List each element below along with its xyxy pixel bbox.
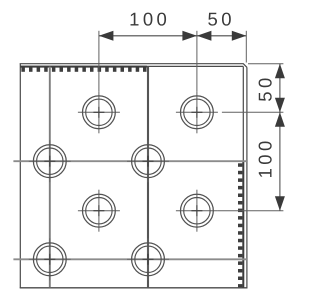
svg-text:50: 50 (208, 8, 235, 29)
arrow left at 98.9 (99, 31, 114, 41)
hole E circles (33, 145, 66, 178)
hole C crosshair (78, 190, 120, 232)
plate right edge inner line (242, 66, 244, 287)
hole G crosshair (29, 238, 71, 280)
arrow right at 246.3 (232, 31, 247, 41)
extension line y=63.7 right (248, 63, 283, 65)
hole G circles (33, 243, 66, 276)
hole E crosshair (29, 140, 71, 182)
extension line x=246.3 (245, 31, 247, 63)
serration bar top (20, 66, 147, 68)
centerline row 1 (13, 160, 247, 162)
serration bar right (242, 161, 244, 288)
hole H crosshair (127, 238, 169, 280)
plate left edge (19, 64, 21, 288)
hole A center tick (93, 107, 104, 118)
hole G center tick (44, 254, 55, 265)
hole C center tick (93, 205, 104, 216)
serration teeth right (238, 163, 242, 287)
centerline row 2 (13, 258, 247, 260)
hole D circles (181, 194, 214, 227)
hole B circles (181, 96, 214, 129)
hole D crosshair (176, 190, 218, 232)
hole F circles (132, 145, 165, 178)
serration teeth top (21, 67, 146, 71)
plate bottom edge (20, 287, 248, 289)
hole C circles (83, 194, 116, 227)
hole E center tick (44, 156, 55, 167)
extension line x=196.9 (196, 31, 198, 92)
centerline column 2 (147, 67, 149, 288)
arrow up at 63.7 (275, 64, 285, 78)
hole D center tick (191, 205, 202, 216)
hole A circles (83, 96, 116, 129)
svg-text:50: 50 (255, 74, 276, 101)
hole H center tick (143, 254, 154, 265)
arrow down at 210.7 (275, 196, 285, 211)
hole H circles (132, 243, 165, 276)
hole B crosshair (176, 91, 218, 133)
plate top edge outer line (20, 64, 247, 68)
plate top edge inner line (20, 65, 243, 67)
right dimension line (279, 64, 281, 211)
hole F crosshair (127, 140, 169, 182)
centerline column 1 (49, 67, 51, 288)
top dimension line (99, 35, 246, 37)
svg-text:100: 100 (129, 8, 170, 29)
arrow butterfly at 112.3 (275, 98, 285, 113)
hole A crosshair (78, 91, 120, 133)
hole B center tick (191, 107, 202, 118)
hole F center tick (143, 156, 154, 167)
plate right edge outer line (246, 67, 248, 287)
extension line x=98.9 (98, 31, 100, 92)
arrow butterfly at 196.9 (182, 31, 197, 41)
extension line y=112.3 right (222, 111, 284, 113)
extension line y=210.7 right (218, 210, 284, 212)
svg-text:100: 100 (255, 137, 276, 178)
